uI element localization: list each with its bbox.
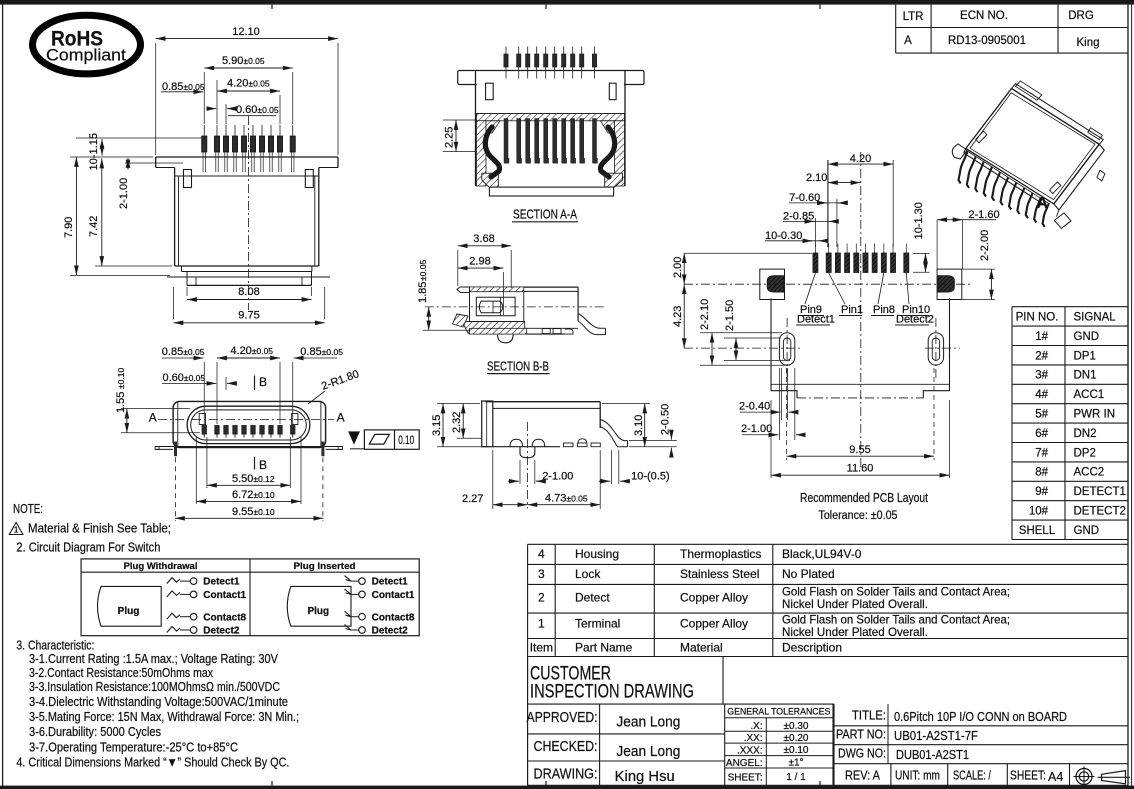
caption SECTION B-B: [487, 358, 550, 373]
svg-text:PWR IN: PWR IN: [1074, 409, 1116, 421]
svg-text:SECTION A-A: SECTION A-A: [513, 207, 577, 222]
dim 2-1.00 pcb: [741, 368, 803, 440]
svg-text:A: A: [337, 411, 345, 425]
note 3 characteristics: [16, 639, 299, 755]
revision table LTR ECN DRG: [896, 5, 1128, 54]
svg-text:3-5.Mating Force: 15N Max, Wit: 3-5.Mating Force: 15N Max, Withdrawal Fo…: [29, 710, 299, 724]
svg-text:8.08: 8.08: [238, 286, 259, 298]
svg-text:No Plated: No Plated: [782, 567, 835, 581]
svg-text:Thermoplastics: Thermoplastics: [680, 547, 761, 561]
svg-text:Plug: Plug: [307, 606, 329, 617]
svg-text:9.75: 9.75: [238, 310, 259, 322]
top view pins: [202, 125, 296, 172]
caption Recommended PCB Layout: [800, 490, 928, 522]
switch Detect2 inserted: [345, 625, 409, 637]
svg-text:A4: A4: [1048, 770, 1063, 784]
dim 2.00 pcb: [672, 253, 812, 284]
top view connector body: [156, 157, 338, 285]
svg-text:LTR: LTR: [903, 11, 924, 23]
svg-text:DWG NO:: DWG NO:: [838, 747, 886, 761]
rev unit scale sheet row: [845, 764, 1070, 786]
svg-text:2.00: 2.00: [672, 257, 684, 278]
dim 2-R1.80 leader: [308, 368, 361, 404]
svg-text:2-1.50: 2-1.50: [724, 300, 736, 331]
svg-text:4. Critical Dimensions Marked: 4. Critical Dimensions Marked “▼” Should…: [16, 756, 289, 770]
svg-text:DRAWING:: DRAWING:: [534, 767, 598, 783]
section B-B body: [453, 287, 606, 343]
svg-text:Nickel Under Plated Overall.: Nickel Under Plated Overall.: [782, 625, 928, 639]
dim 0.85/4.20/0.85 front: [162, 345, 343, 424]
dim 9.75: [173, 287, 324, 323]
svg-text:10-(0.5): 10-(0.5): [631, 471, 670, 483]
approval rows: [527, 704, 725, 785]
svg-text:2. Circuit Diagram For Switch: 2. Circuit Diagram For Switch: [16, 541, 160, 555]
dim 10-1.15: [76, 133, 202, 170]
pcb layout ground pads: [760, 269, 962, 299]
svg-text:1.85: 1.85: [417, 282, 429, 303]
dim 5.90±0.05: [204, 55, 293, 124]
svg-text:Plug: Plug: [118, 606, 140, 617]
svg-text:7.90: 7.90: [63, 217, 75, 238]
svg-text:0.60±0.05: 0.60±0.05: [163, 372, 206, 384]
dim 10-1.30 pcb: [913, 202, 930, 272]
svg-text:GND: GND: [1074, 331, 1100, 343]
svg-text:0.10: 0.10: [398, 435, 414, 447]
svg-text:SHEET:: SHEET:: [1010, 769, 1046, 783]
svg-text:7.42: 7.42: [88, 216, 100, 237]
svg-text:±0.10: ±0.10: [784, 745, 809, 756]
dim 3.15: [431, 404, 490, 447]
svg-text:10-1.30: 10-1.30: [913, 202, 925, 239]
svg-text:2.10: 2.10: [806, 172, 827, 184]
dim 2-0.40 pcb: [739, 368, 795, 420]
svg-text:3.10: 3.10: [633, 415, 645, 436]
dim 2-0.85 pcb: [783, 211, 837, 248]
svg-text:3-2.Contact Resistance:50mOhms: 3-2.Contact Resistance:50mOhms max: [29, 666, 214, 680]
svg-text:5.90±0.05: 5.90±0.05: [222, 55, 265, 67]
svg-text:2.27: 2.27: [462, 493, 483, 505]
svg-text:SCALE: /: SCALE: /: [953, 769, 991, 783]
svg-text:Lock: Lock: [575, 567, 601, 581]
svg-text:12.10: 12.10: [232, 26, 260, 38]
svg-text:Nickel Under Plated Overall.: Nickel Under Plated Overall.: [782, 597, 928, 611]
svg-text:ACC2: ACC2: [1074, 467, 1105, 479]
section line B-B: [255, 375, 268, 472]
dim 4.20 pcb: [828, 153, 893, 247]
svg-text:3. Characteristic:: 3. Characteristic:: [16, 639, 94, 653]
svg-text:ACC1: ACC1: [1074, 389, 1105, 401]
side view body: [482, 401, 628, 458]
svg-text:ECN NO.: ECN NO.: [960, 10, 1008, 22]
svg-text:0.85±0.05: 0.85±0.05: [162, 346, 205, 358]
svg-text:DN1: DN1: [1074, 370, 1097, 382]
section A-A contact pins: [504, 119, 598, 164]
svg-text:3: 3: [538, 567, 545, 581]
section A-A left shield spring: [485, 127, 499, 177]
svg-text:Pin8: Pin8: [873, 304, 895, 316]
svg-text:Black,UL94V-0: Black,UL94V-0: [782, 547, 862, 561]
svg-text:3-1.Current Rating :1.5A max.;: 3-1.Current Rating :1.5A max.; Voltage R…: [29, 652, 279, 666]
svg-text:6.72±0.10: 6.72±0.10: [232, 489, 275, 501]
svg-text:A: A: [149, 411, 157, 425]
top view latch holes: [184, 170, 314, 188]
dim 0.60±0.05 front: [162, 372, 237, 390]
front view solder legs: [155, 442, 343, 522]
svg-text:2.25: 2.25: [444, 127, 456, 148]
svg-text:Detect2: Detect2: [896, 314, 934, 326]
svg-text:Copper Alloy: Copper Alloy: [680, 591, 748, 605]
svg-text:1 / 1: 1 / 1: [786, 772, 806, 783]
dim 10-0.30 pcb: [765, 230, 825, 242]
svg-text:Plug Inserted: Plug Inserted: [294, 561, 356, 572]
svg-text:4.23: 4.23: [672, 306, 684, 327]
dim 4.20±0.05 top: [217, 78, 280, 125]
flatness tolerance box 0.10: [350, 430, 419, 449]
svg-text:SECTION B-B: SECTION B-B: [487, 358, 549, 373]
svg-text:Plug Withdrawal: Plug Withdrawal: [124, 561, 198, 572]
dim 1.85±0.05: [417, 260, 470, 331]
svg-text:4: 4: [538, 547, 545, 561]
svg-text:DETECT1: DETECT1: [1074, 486, 1126, 498]
switch Contact8 withdrawn: [167, 612, 247, 636]
svg-text:4.20: 4.20: [850, 153, 871, 165]
svg-text:Detect: Detect: [575, 591, 610, 605]
svg-text:3-3.Insulation Resistance:100M: 3-3.Insulation Resistance:100MOhmsΩ min.…: [29, 680, 280, 694]
svg-text:APPROVED:: APPROVED:: [527, 710, 598, 726]
dim 9.55 pcb: [786, 368, 934, 460]
switch Detect1 withdrawn: [167, 577, 247, 637]
svg-text:0.85±0.05: 0.85±0.05: [300, 346, 343, 358]
svg-text:0.60±0.05: 0.60±0.05: [236, 104, 279, 116]
svg-text:±0.10: ±0.10: [116, 368, 126, 389]
notes text: [13, 502, 43, 516]
svg-text:1: 1: [14, 524, 19, 534]
svg-text:King: King: [1076, 37, 1099, 49]
switch Contact1 inserted: [345, 589, 415, 601]
switch Detect1 inserted: [345, 576, 409, 588]
svg-text:±0.30: ±0.30: [784, 721, 809, 732]
svg-text:±0.20: ±0.20: [784, 733, 809, 744]
svg-text:Detect2: Detect2: [372, 626, 409, 637]
svg-text:.XX:: .XX:: [744, 733, 763, 744]
plug symbol inserted: [287, 586, 351, 626]
dim 10-(0.5): [599, 450, 670, 484]
svg-text:Contact1: Contact1: [372, 590, 415, 601]
svg-text:GENERAL TOLERANCES: GENERAL TOLERANCES: [727, 706, 830, 717]
dim 2.10 pcb: [806, 172, 861, 184]
surface mark triangle: [349, 432, 359, 444]
svg-text:Contact8: Contact8: [372, 612, 415, 623]
dim 2-1.00 side: [508, 460, 573, 484]
dim 3.10: [602, 404, 650, 447]
svg-text:7#: 7#: [1035, 447, 1048, 459]
dim 2-1.60 pcb: [937, 209, 1000, 269]
svg-text:2-1.00: 2-1.00: [741, 423, 772, 435]
pcb layout slots: [779, 333, 943, 366]
pcb layout body outline: [771, 298, 950, 398]
projection symbol cone: [1098, 771, 1131, 784]
svg-text:2.32: 2.32: [451, 412, 463, 433]
svg-text:.X:: .X:: [750, 721, 762, 732]
svg-text:PIN NO.: PIN NO.: [1016, 312, 1059, 324]
svg-text:Jean Long: Jean Long: [616, 744, 680, 760]
plug symbol withdrawn: [98, 586, 162, 626]
section A-A right shield spring: [600, 127, 614, 177]
svg-text:3.68: 3.68: [473, 233, 494, 245]
svg-text:0.85±0.05: 0.85±0.05: [162, 81, 205, 93]
svg-text:2: 2: [538, 591, 545, 605]
dim 2-1.00 top: [118, 158, 183, 209]
svg-text:2-2.00: 2-2.00: [979, 230, 991, 261]
dim 8.08: [187, 286, 312, 300]
dim 12.10: [156, 26, 338, 155]
general tolerances table: [725, 704, 833, 785]
section line A-A: [149, 411, 345, 425]
svg-text:PART NO:: PART NO:: [836, 728, 886, 742]
svg-text:1: 1: [538, 617, 545, 631]
svg-text:11.60: 11.60: [847, 463, 874, 475]
dim 2-2.10 pcb: [699, 299, 790, 365]
svg-text:B: B: [259, 458, 267, 472]
svg-text:10-1.15: 10-1.15: [88, 133, 100, 170]
svg-text:6#: 6#: [1035, 428, 1048, 440]
title block customer inspection drawing: [528, 657, 1128, 786]
dim 2.98: [458, 256, 504, 316]
svg-text:Stainless Steel: Stainless Steel: [680, 567, 759, 581]
front view connector body: [173, 401, 326, 447]
svg-text:2#: 2#: [1035, 350, 1048, 362]
dim 0.85±0.05 top: [161, 81, 205, 93]
svg-text:Recommended PCB Layout: Recommended PCB Layout: [800, 490, 928, 505]
svg-text:±0.05: ±0.05: [418, 260, 428, 281]
svg-text:2-0.40: 2-0.40: [739, 401, 770, 413]
svg-text:2-0.50: 2-0.50: [660, 404, 672, 435]
svg-text:3#: 3#: [1035, 370, 1048, 382]
svg-text:Housing: Housing: [575, 547, 619, 561]
caption SECTION A-A: [512, 207, 578, 222]
pin signal table: [1012, 307, 1128, 540]
switch Contact1 withdrawn: [167, 590, 247, 637]
svg-text:Terminal: Terminal: [575, 617, 620, 631]
svg-text:TITLE:: TITLE:: [852, 709, 886, 723]
svg-text:DRG: DRG: [1068, 10, 1094, 22]
svg-text:A: A: [1037, 195, 1049, 212]
svg-text:INSPECTION DRAWING: INSPECTION DRAWING: [530, 682, 694, 703]
svg-text:UNIT: mm: UNIT: mm: [895, 769, 940, 783]
svg-text:DN2: DN2: [1074, 428, 1097, 440]
svg-text:4.73±0.05: 4.73±0.05: [545, 493, 588, 505]
svg-text:Contact1: Contact1: [203, 590, 246, 601]
dim 9.55±0.10: [175, 506, 323, 518]
dim 7-0.60 pcb: [789, 192, 846, 247]
side view center line: [526, 422, 528, 508]
dim 2-1.50 pcb: [724, 300, 790, 361]
section A-A hatched shell: [477, 114, 625, 186]
note 1 triangle marker: [9, 522, 171, 536]
svg-text:A: A: [904, 35, 912, 47]
dim 2.27: [462, 450, 527, 509]
svg-text:2-0.85: 2-0.85: [783, 211, 814, 223]
svg-text:Part Name: Part Name: [575, 641, 633, 655]
svg-text:4#: 4#: [1035, 389, 1048, 401]
section A-A terminals hatched feet: [482, 173, 623, 187]
svg-text:REV: A: REV: A: [845, 769, 881, 783]
switch Contact8 inserted: [345, 611, 415, 623]
svg-text:9.55±0.10: 9.55±0.10: [232, 506, 275, 518]
svg-text:7-0.60: 7-0.60: [789, 192, 820, 204]
svg-text:5.50±0.12: 5.50±0.12: [232, 473, 275, 485]
dim 3.68: [458, 233, 511, 288]
dim 4.23 pcb: [672, 284, 684, 348]
svg-text:CHECKED:: CHECKED:: [534, 739, 598, 755]
dim 2-0.50: [629, 404, 677, 455]
svg-text:Contact8: Contact8: [203, 612, 246, 623]
svg-text:9#: 9#: [1035, 486, 1048, 498]
svg-text:4.20±0.05: 4.20±0.05: [227, 78, 270, 90]
isometric view pins: [959, 152, 1050, 227]
svg-text:DP1: DP1: [1074, 350, 1096, 362]
svg-text:RD13-0905001: RD13-0905001: [948, 35, 1026, 47]
section A-A top pins: [504, 47, 597, 79]
svg-text:4.20±0.05: 4.20±0.05: [230, 345, 273, 357]
svg-text:1.55: 1.55: [115, 392, 127, 413]
svg-text:SHELL: SHELL: [1019, 525, 1056, 537]
section A-A bottom plate: [489, 187, 613, 196]
svg-text:SIGNAL: SIGNAL: [1074, 312, 1117, 324]
svg-text:8#: 8#: [1035, 467, 1048, 479]
svg-text:Detect1: Detect1: [372, 577, 409, 588]
svg-text:Jean Long: Jean Long: [616, 715, 680, 731]
section B-B center line: [425, 306, 606, 308]
svg-text:2-1.00: 2-1.00: [542, 471, 573, 483]
svg-text:Tolerance: ±0.05: Tolerance: ±0.05: [819, 510, 898, 522]
svg-text:1#: 1#: [1035, 331, 1048, 343]
dim 4.73±0.05: [527, 450, 600, 509]
pcb layout center lines: [684, 152, 972, 470]
dim 2-2.00 pcb: [963, 230, 995, 300]
svg-text:0.6Pitch 10P I/O CONN on BOARD: 0.6Pitch 10P I/O CONN on BOARD: [894, 710, 1067, 724]
dim 7.42: [88, 159, 172, 267]
svg-text:Compliant: Compliant: [46, 46, 126, 65]
svg-text:DUB01-A2ST1: DUB01-A2ST1: [896, 748, 969, 762]
switch diagram frame: [81, 559, 419, 636]
svg-text:9.55: 9.55: [849, 444, 870, 456]
svg-text:Material: Material: [680, 641, 723, 655]
svg-text:10#: 10#: [1029, 506, 1049, 518]
svg-text:Copper Alloy: Copper Alloy: [680, 617, 748, 631]
pin leader labels: [796, 273, 934, 326]
title part dwg rows: [834, 704, 1128, 785]
dim 2.32: [451, 404, 482, 439]
svg-text:SHEET:: SHEET:: [728, 773, 763, 784]
isometric view connector: [952, 81, 1105, 229]
svg-text:3-6.Durability: 5000 Cycles: 3-6.Durability: 5000 Cycles: [29, 725, 161, 739]
svg-text:5#: 5#: [1035, 409, 1048, 421]
svg-text:3-7.Operating Temperature:-25°: 3-7.Operating Temperature:-25°C to+85°C: [29, 741, 238, 755]
parts material table: [528, 544, 1128, 656]
svg-text:Detect2: Detect2: [203, 626, 240, 637]
pcb layout pads: [813, 244, 909, 273]
dim 0.60±0.05 top: [207, 104, 279, 124]
front view pins: [202, 426, 295, 438]
svg-text:.XXX:: .XXX:: [737, 746, 763, 757]
svg-text:King Hsu: King Hsu: [615, 769, 675, 785]
svg-text:2.98: 2.98: [469, 256, 490, 268]
svg-text:DP2: DP2: [1074, 447, 1096, 459]
svg-text:±1°: ±1°: [788, 757, 803, 768]
svg-text:3-4.Dielectric Withstanding Vo: 3-4.Dielectric Withstanding Voltage:500V…: [29, 695, 288, 709]
svg-text:3.15: 3.15: [431, 415, 443, 436]
svg-text:UB01-A2ST1-7F: UB01-A2ST1-7F: [894, 729, 978, 743]
svg-text:Description: Description: [782, 641, 842, 655]
dim 1.55±0.10: [115, 368, 200, 433]
svg-text:2-1.60: 2-1.60: [968, 209, 999, 221]
dim 5.50±0.12: [207, 437, 290, 488]
svg-text:DETECT2: DETECT2: [1074, 506, 1126, 518]
svg-text:Item: Item: [530, 641, 553, 655]
svg-text:GND: GND: [1074, 525, 1100, 537]
section A-A body: [458, 71, 644, 187]
svg-text:Material & Finish See Table;: Material & Finish See Table;: [28, 522, 171, 536]
dim 6.72±0.10: [196, 437, 301, 504]
svg-text:NOTE:: NOTE:: [13, 502, 43, 516]
svg-text:2-1.00: 2-1.00: [118, 178, 130, 209]
projection symbol circle: [1074, 766, 1095, 786]
switch Detect2 withdrawn: [167, 626, 240, 637]
top view center line: [248, 116, 250, 310]
RoHS Compliant logo: [33, 15, 141, 74]
svg-text:2-2.10: 2-2.10: [699, 299, 711, 330]
dim 7.90: [63, 157, 170, 275]
dim 11.60 pcb: [771, 400, 950, 478]
front view side contacts: [199, 414, 298, 425]
svg-text:B: B: [259, 375, 267, 389]
svg-text:Detect1: Detect1: [797, 314, 835, 326]
dim 2.25: [443, 120, 477, 152]
svg-text:ANGEL:: ANGEL:: [726, 758, 763, 769]
svg-text:Detect1: Detect1: [203, 577, 240, 588]
svg-text:Pin1: Pin1: [841, 304, 863, 316]
svg-text:10-0.30: 10-0.30: [765, 230, 802, 242]
